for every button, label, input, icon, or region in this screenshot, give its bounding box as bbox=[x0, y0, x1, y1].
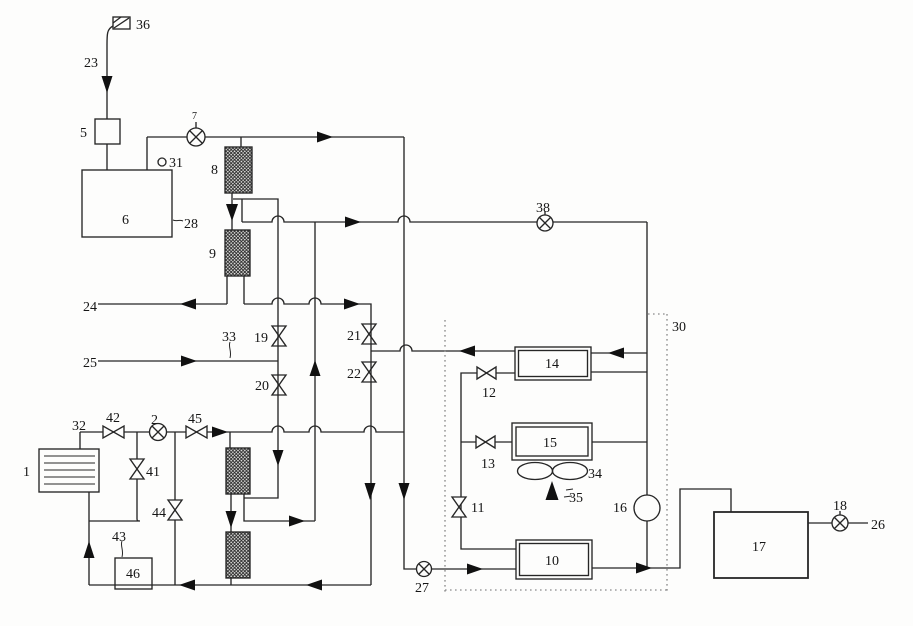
arrow up on left vertical bbox=[84, 541, 95, 558]
arrow up on riser bbox=[310, 360, 321, 376]
svg-text:28: 28 bbox=[184, 217, 198, 232]
svg-text:43: 43 bbox=[112, 530, 126, 545]
wire box17 right to 26 bbox=[808, 522, 868, 524]
svg-text:25: 25 bbox=[83, 356, 97, 371]
box 6 bbox=[82, 170, 172, 237]
svg-text:10: 10 bbox=[545, 554, 559, 569]
svg-text:9: 9 bbox=[209, 247, 216, 262]
svg-text:33: 33 bbox=[222, 330, 236, 345]
svg-text:19: 19 bbox=[254, 331, 268, 346]
leader of label 43 bbox=[121, 541, 122, 557]
wire line 24 to the left bbox=[98, 303, 227, 305]
valve 22 bbox=[362, 362, 376, 382]
wire valve12 line from box14 left, down left riser bbox=[461, 373, 516, 549]
valve 12 bbox=[477, 367, 496, 379]
svg-text:34: 34 bbox=[588, 467, 602, 482]
svg-text:32: 32 bbox=[72, 419, 86, 434]
pump circle 2 bbox=[150, 424, 167, 441]
wire line 351 from valve21/22 tee to box 14 (hop at 406) bbox=[371, 345, 515, 351]
svg-text:12: 12 bbox=[482, 386, 496, 401]
valve 45 bbox=[186, 426, 207, 438]
dashed boundary 30 top stub bbox=[648, 313, 667, 315]
arrow right on line 25 bbox=[181, 356, 197, 367]
svg-text:31: 31 bbox=[169, 156, 183, 171]
wire box10 right to box 17 bbox=[592, 489, 731, 568]
valve 11 bbox=[452, 497, 466, 517]
arrow right on top line bbox=[317, 132, 333, 143]
wire connector to line 222 bbox=[241, 199, 243, 222]
wire top-right vertical x404 bbox=[404, 137, 417, 569]
arrow left on bottom line (left) bbox=[179, 580, 195, 591]
box 10 bbox=[516, 540, 592, 579]
leader of label 28 bbox=[173, 220, 183, 221]
box 14 bbox=[515, 347, 591, 380]
wire box9 left stub down to line 24 bbox=[226, 276, 228, 304]
arrow right near corner bbox=[344, 299, 360, 310]
svg-text:15: 15 bbox=[543, 436, 557, 451]
valve 42 bbox=[103, 426, 124, 438]
wire box5 to box6 bbox=[106, 144, 108, 170]
radiator box 1 bbox=[39, 449, 99, 492]
arrow down on x370 vertical bbox=[365, 483, 376, 500]
heat exchanger box 9 bbox=[225, 230, 250, 276]
svg-text:13: 13 bbox=[481, 457, 495, 472]
svg-text:21: 21 bbox=[347, 329, 361, 344]
valve 13 bbox=[476, 436, 495, 448]
svg-text:24: 24 bbox=[83, 300, 97, 315]
box 46 bbox=[115, 558, 152, 589]
svg-text:44: 44 bbox=[152, 506, 166, 521]
arrow left on line 24 bbox=[180, 299, 196, 310]
heat exchanger box 3 bbox=[226, 448, 250, 494]
wire corner down to box1 top (node 32) bbox=[79, 432, 81, 449]
arrow right on line 521 bbox=[289, 516, 305, 527]
wire top line from box6 to corner, through valve 7 bbox=[147, 136, 404, 138]
heat exchanger box 8 bbox=[225, 147, 252, 193]
dashed boundary 30 left bbox=[444, 320, 446, 592]
svg-text:38: 38 bbox=[536, 201, 550, 216]
valve circle 18 bbox=[832, 511, 848, 531]
svg-text:36: 36 bbox=[136, 18, 150, 33]
wire right vertical x647 down to bottom flow line bbox=[646, 222, 648, 568]
wire box14 lower-right to vertical bbox=[591, 371, 647, 373]
svg-text:35: 35 bbox=[569, 491, 583, 506]
svg-text:30: 30 bbox=[672, 320, 686, 335]
wire box15 right to vertical bbox=[592, 441, 647, 443]
svg-text:5: 5 bbox=[80, 126, 87, 141]
fan 34 bbox=[518, 463, 588, 480]
svg-text:46: 46 bbox=[126, 567, 140, 582]
dashed boundary 30 bottom bbox=[445, 589, 667, 591]
arrow right after box10 bbox=[636, 563, 652, 574]
wire into box14 from right vertical bbox=[591, 352, 647, 354]
wire stub into box 8 top bbox=[240, 137, 242, 147]
box 15 bbox=[512, 423, 592, 460]
valve circle 38 bbox=[537, 211, 553, 231]
valve 41 branch bbox=[89, 432, 140, 521]
arrow right after valve 45 bbox=[212, 427, 228, 438]
arrow down on pipe 23 bbox=[102, 76, 113, 93]
wire from circle27 into box10 bbox=[431, 568, 516, 570]
arrow left on bottom line (right) bbox=[306, 580, 322, 591]
wire box4 bottom stub bbox=[230, 578, 232, 585]
arrow left into box 14 bbox=[608, 348, 624, 359]
box 5 bbox=[95, 119, 120, 144]
arrow down between 3 and 4 bbox=[226, 511, 237, 528]
arrow left on line 351 bbox=[459, 346, 475, 357]
svg-text:6: 6 bbox=[122, 213, 129, 228]
arrow up into fan (35) bbox=[546, 481, 559, 500]
wire stub down into box 3 top bbox=[229, 432, 231, 448]
wire left vertical from box1 bottom to bottom line bbox=[88, 492, 90, 585]
dashed boundary 30 right bbox=[666, 314, 668, 592]
valve circle 7 bbox=[187, 122, 205, 146]
wire elbow from fitting 36 down bbox=[107, 26, 113, 119]
riser x315 from line222 down to 521 bbox=[314, 222, 316, 521]
arrow down on x404 bbox=[399, 483, 410, 500]
fitting 36 bbox=[113, 17, 130, 29]
wire line 25 bbox=[98, 360, 278, 362]
svg-text:11: 11 bbox=[471, 501, 484, 516]
bottom return line bbox=[89, 584, 371, 586]
valve 21 bbox=[362, 324, 376, 344]
svg-text:1: 1 bbox=[23, 465, 30, 480]
svg-text:22: 22 bbox=[347, 367, 361, 382]
svg-text:27: 27 bbox=[415, 581, 429, 596]
svg-text:16: 16 bbox=[613, 501, 627, 516]
wire box6 top to top line bbox=[146, 137, 148, 170]
arrow right on line 222 bbox=[345, 217, 361, 228]
svg-text:18: 18 bbox=[833, 499, 847, 514]
svg-text:42: 42 bbox=[106, 411, 120, 426]
svg-text:2: 2 bbox=[151, 413, 158, 428]
svg-text:45: 45 bbox=[188, 412, 202, 427]
wire box9 right stub down bbox=[243, 276, 245, 304]
svg-text:41: 41 bbox=[146, 465, 160, 480]
svg-text:8: 8 bbox=[211, 163, 218, 178]
heat exchanger box 4 bbox=[226, 532, 250, 578]
wire box3 to box4 bbox=[230, 494, 232, 532]
svg-text:23: 23 bbox=[84, 56, 98, 71]
leader of label 35 bbox=[564, 489, 573, 497]
svg-text:7: 7 bbox=[192, 111, 197, 122]
valve 19 bbox=[272, 326, 286, 346]
valve circle 27 bbox=[417, 562, 432, 577]
valve 44 branch bbox=[174, 432, 176, 585]
arrow right into box 10 bbox=[467, 564, 483, 575]
wire line 24-right to valve 21 branch (hops at 278,315) bbox=[244, 298, 371, 585]
leader of label 33 bbox=[229, 342, 230, 358]
wire branch y199 to vertical of valves 19/20 bbox=[233, 199, 278, 498]
wire box8 to box9 bbox=[231, 193, 233, 230]
svg-text:26: 26 bbox=[871, 518, 885, 533]
wire long line y222 to right corner (hops at 278,404) bbox=[242, 216, 647, 222]
valve 20 bbox=[272, 375, 286, 395]
sensor circle 31 bbox=[158, 158, 166, 166]
main hx flow line y432 with components bbox=[80, 426, 404, 432]
svg-text:20: 20 bbox=[255, 379, 269, 394]
wire box3 right-bottom pipe down and right to riser bbox=[244, 494, 315, 521]
valve 44 bbox=[168, 500, 182, 520]
arrow down between 8 and 9 bbox=[226, 204, 238, 221]
svg-text:14: 14 bbox=[545, 357, 559, 372]
pump 16 bbox=[634, 495, 660, 521]
arrow down on valve20 branch bbox=[273, 450, 284, 466]
svg-text:17: 17 bbox=[752, 540, 766, 555]
box 17 bbox=[714, 512, 808, 578]
valve 41 bbox=[130, 459, 144, 479]
wire valve13 line from box15 left bbox=[461, 441, 512, 443]
